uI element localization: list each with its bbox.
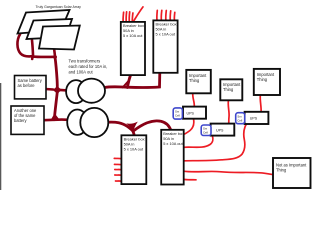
wire UPS1 to breaker box 4 — [184, 119, 194, 135]
svg-text:UPS: UPS — [216, 128, 224, 132]
wire battery 1 tap — [46, 88, 54, 91]
breaker box 4 — [161, 130, 184, 185]
transformer T2 — [67, 110, 87, 135]
wire breaker box 4 to Not box — [184, 171, 273, 174]
svg-text:5 x 10A out: 5 x 10A out — [163, 141, 183, 146]
wire branch into breaker box 3 — [133, 131, 135, 137]
transformer T1 — [66, 80, 86, 103]
breaker box 1 output wires — [123, 7, 143, 22]
wire from panel 3 to junction — [54, 48, 55, 57]
battery box 2 — [11, 106, 44, 134]
svg-text:Two transformers: Two transformers — [69, 59, 101, 64]
wire branch into breaker box 1 — [127, 74, 131, 88]
solar panel 2 — [27, 19, 73, 39]
wire T2 output to lower breaker boxes — [108, 121, 171, 132]
wire battery 2 tap — [44, 119, 55, 122]
wire spur at branch — [123, 80, 130, 88]
small cell 3 — [236, 113, 245, 124]
svg-text:Cell: Cell — [175, 114, 180, 118]
wire from panel 2 to junction — [32, 40, 55, 59]
wire Important B to UPS2 — [227, 101, 230, 124]
unused stub on breaker box 4 — [184, 178, 197, 181]
svg-text:UPS: UPS — [250, 117, 258, 121]
not as important thing box — [273, 158, 311, 188]
svg-text:5 x 10A out: 5 x 10A out — [124, 147, 144, 152]
svg-text:Thing: Thing — [223, 87, 234, 92]
svg-text:each rated for 10A in,: each rated for 10A in, — [69, 64, 108, 69]
breaker box 1 — [121, 22, 145, 75]
svg-text:5 x 10A out: 5 x 10A out — [123, 33, 143, 38]
breaker box 3 output stubs — [114, 158, 121, 181]
UPS box 3 — [245, 112, 269, 124]
svg-text:and 100A out: and 100A out — [69, 69, 94, 74]
junction node below panels — [53, 55, 57, 59]
wire UPS3 to breaker box 4 — [184, 124, 247, 161]
node A junction — [52, 85, 63, 96]
UPS box 1 — [183, 107, 206, 119]
junction blob T1 branch — [125, 86, 129, 89]
wire Important C to UPS3 — [259, 96, 262, 112]
important thing box B — [220, 79, 242, 100]
wire UPS2 to breaker box 4 — [184, 136, 213, 148]
junction blob T2 branch — [126, 122, 138, 131]
breaker box 2 output wires — [157, 10, 175, 20]
UPS box 2 — [211, 124, 235, 136]
svg-text:as before: as before — [18, 83, 36, 88]
important thing box A — [186, 70, 211, 93]
wire from panel 1 to junction — [17, 34, 32, 56]
wire node A to transformer T1 — [56, 89, 67, 92]
svg-text:Truly Gargantuan Solar Array: Truly Gargantuan Solar Array — [36, 5, 82, 9]
breaker box 2 — [153, 20, 177, 72]
trunk wire to node A — [55, 57, 57, 87]
wire Important A to UPS1 — [193, 94, 195, 107]
battery box 1 — [15, 76, 47, 99]
svg-text:Cell: Cell — [203, 130, 208, 134]
svg-text:Thing: Thing — [276, 168, 287, 173]
svg-text:UPS: UPS — [187, 111, 195, 115]
small cell 2 — [201, 125, 211, 136]
svg-text:Thing: Thing — [189, 78, 200, 83]
node B junction — [51, 113, 60, 120]
solar panel 3 — [39, 26, 80, 50]
svg-text:5 x 10A out: 5 x 10A out — [156, 32, 176, 37]
breaker box 3 — [121, 135, 146, 184]
stray canvas edge line — [0, 83, 2, 190]
bus wire to node B — [55, 91, 58, 115]
svg-text:Thing: Thing — [257, 77, 268, 82]
small cell 1 — [173, 108, 182, 119]
solar panel 1 — [18, 10, 70, 34]
important thing box C — [254, 69, 280, 95]
wire T1 output to breaker boxes — [105, 73, 160, 88]
wire node B to transformer T2 — [54, 118, 69, 121]
svg-text:Cell: Cell — [237, 118, 242, 122]
svg-text:battery: battery — [14, 118, 27, 123]
